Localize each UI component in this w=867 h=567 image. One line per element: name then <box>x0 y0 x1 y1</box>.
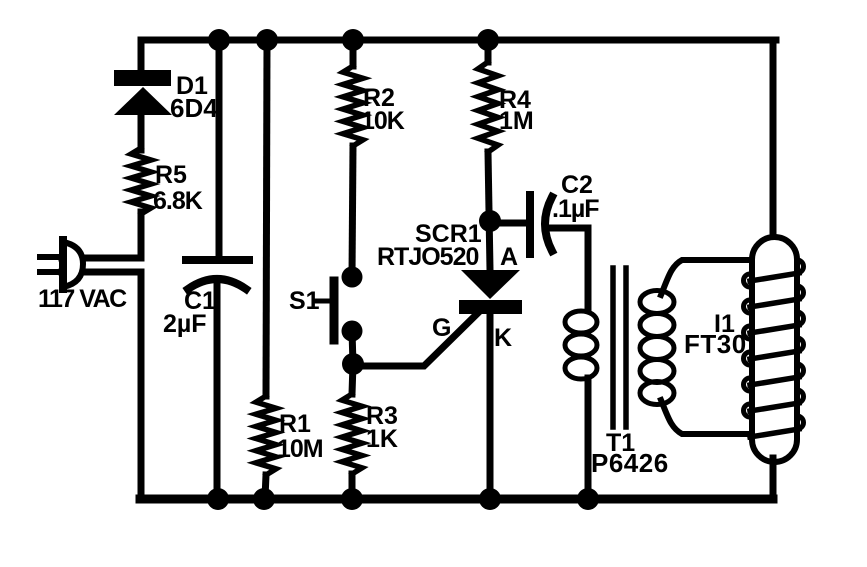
svg-text:10M: 10M <box>277 435 323 463</box>
svg-text:6.8K: 6.8K <box>153 187 203 215</box>
wire top rail <box>141 37 776 44</box>
capacitor C1 curved plate <box>188 279 246 289</box>
wire R4 top <box>485 40 492 62</box>
wire top-left vertical to D1 <box>138 40 145 70</box>
svg-text:G: G <box>432 314 451 342</box>
svg-text:RTJO520: RTJO520 <box>377 243 478 271</box>
wire R1 bottom <box>265 475 266 498</box>
resistor R1 <box>256 396 276 475</box>
node dot bottom rail T1 <box>577 488 599 510</box>
wire R2 to S1 <box>352 146 353 276</box>
svg-text:1M: 1M <box>499 107 534 135</box>
wire T1 secondary top to flash tube <box>661 260 753 295</box>
wire R2 top <box>350 40 357 66</box>
wire plug upper lead to D1/R5 branch <box>62 212 141 258</box>
svg-text:1K: 1K <box>366 425 398 453</box>
resistor R5 <box>131 148 151 214</box>
transformer T1 core <box>613 268 626 427</box>
switch S1 upper contact <box>342 267 363 288</box>
diode D1 cathode bar <box>114 70 171 86</box>
svg-text:10K: 10K <box>361 107 405 135</box>
svg-text:P6426: P6426 <box>591 448 669 478</box>
wire right vertical from top rail to flash tube <box>770 40 777 242</box>
wire C2 to T1 primary <box>547 228 588 310</box>
wire flash tube bottom to rail <box>770 458 777 498</box>
node dot top rail R2 <box>342 29 364 51</box>
wire T1 primary bottom <box>585 378 592 498</box>
resistor R4 <box>478 62 498 152</box>
node dot SCR anode / C2 <box>479 210 501 232</box>
wire D1 to R5 <box>138 112 145 150</box>
wire C1 top <box>216 40 223 258</box>
node dot top rail R4 <box>477 29 499 51</box>
wire T1 secondary bottom to flash tube <box>661 400 750 434</box>
wire R1 top <box>266 40 267 396</box>
svg-text:R1: R1 <box>279 410 311 438</box>
resistor R3 <box>342 394 362 474</box>
svg-text:6D4: 6D4 <box>170 93 218 123</box>
label S1 tick <box>315 299 330 304</box>
wire C1 bottom <box>214 281 221 498</box>
flash tube I1 envelope <box>752 237 797 462</box>
wire gate junction to SCR gate <box>353 310 481 366</box>
svg-text:FT30: FT30 <box>684 329 747 359</box>
wire bottom rail <box>140 495 773 504</box>
wire R3 bottom <box>349 474 356 498</box>
resistor R2 <box>343 66 363 146</box>
flash tube I1 trigger coil <box>750 273 799 281</box>
node dot gate junction <box>342 353 364 375</box>
node dot top rail R1 <box>256 29 278 51</box>
wire SCR node to C2 <box>490 220 527 227</box>
svg-text:117 VAC: 117 VAC <box>38 285 127 313</box>
switch S1 lower contact <box>342 321 363 342</box>
transformer T1 secondary coil <box>640 291 674 405</box>
node dot bottom rail SCR <box>479 488 501 510</box>
svg-text:R5: R5 <box>155 161 187 189</box>
switch S1 actuator bar <box>330 281 339 340</box>
transformer T1 primary coil <box>565 311 597 379</box>
capacitor C2 left plate <box>526 195 534 254</box>
capacitor C1 top plate <box>186 256 249 264</box>
diode D1 anode triangle <box>114 87 172 115</box>
wire R4 to SCR anode <box>488 152 490 270</box>
svg-text:.1µF: .1µF <box>552 195 599 223</box>
svg-text:A: A <box>500 243 518 271</box>
capacitor C2 curved plate <box>545 197 552 251</box>
SCR1 anode triangle <box>461 270 520 299</box>
node dot bottom rail C1 <box>207 488 229 510</box>
node dot bottom rail R3 <box>341 488 363 510</box>
wire left vertical plug lower lead down to bottom rail <box>62 272 141 498</box>
wire SCR cathode down <box>487 314 494 498</box>
wire gate junction down to R3 <box>352 364 353 394</box>
SCR1 cathode bar <box>459 300 522 314</box>
node dot top rail C1 <box>208 29 230 51</box>
node dot bottom rail R1 <box>253 488 275 510</box>
svg-text:K: K <box>494 324 512 352</box>
wire S1 to gate node <box>352 331 353 364</box>
plug P1 117 VAC <box>40 240 83 289</box>
svg-text:2µF: 2µF <box>163 310 207 338</box>
